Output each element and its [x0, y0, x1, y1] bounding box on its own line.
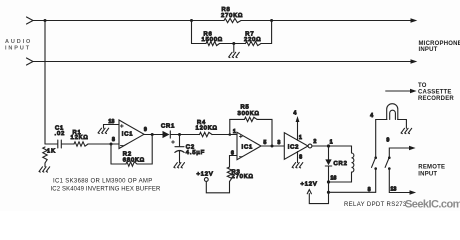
- svg-text:13: 13: [109, 119, 115, 125]
- watermark SeekIC.com: [405, 199, 460, 211]
- pin label 13: [109, 119, 115, 125]
- svg-text:13: 13: [391, 187, 397, 193]
- pin label 13 (relay contact): [391, 187, 397, 193]
- wire: feedback bottom left: [111, 163, 126, 165]
- op-amp U1b IC1 second section: [237, 132, 261, 159]
- pin label 4: [294, 111, 297, 117]
- svg-text:IC2: IC2: [288, 145, 300, 151]
- svg-text:CR1: CR1: [161, 124, 175, 130]
- label R1: [73, 130, 82, 136]
- resistor R1 (1K to ground) label 1K: [43, 147, 47, 163]
- pin label 9 (relay contact): [387, 138, 390, 144]
- label R6: [204, 32, 213, 38]
- svg-text:1: 1: [330, 140, 333, 146]
- svg-text:270KΩ: 270KΩ: [221, 13, 243, 19]
- pin label 1: [233, 129, 236, 135]
- label CR2: [334, 161, 348, 167]
- value 270KΩ (R3): [232, 174, 254, 180]
- label REMOTE INPUT: [418, 165, 445, 178]
- pin label 9: [144, 127, 147, 133]
- wire: second microphone line: [33, 61, 412, 63]
- wire: R5 top right segment + right vertical down to output: [257, 119, 272, 146]
- resistor R7: [246, 41, 262, 45]
- node: +12V rail junction: [327, 191, 330, 194]
- label TO CASSETTE RECORDER: [418, 83, 454, 102]
- wire: R5 top left segment: [230, 118, 245, 120]
- minus mark U1a: [120, 145, 123, 147]
- node: relay coil top (pin 1): [327, 144, 330, 147]
- switch S1b contacts and arm: [385, 156, 391, 170]
- svg-text:IC1 SK3688 OR LM3900 OP AMP: IC1 SK3688 OR LM3900 OP AMP: [53, 179, 153, 185]
- wire: feedback down from pin 8: [110, 144, 112, 164]
- value 270KΩ (R8): [221, 13, 243, 19]
- label R5: [241, 105, 250, 111]
- wire: node to C1: [45, 143, 57, 145]
- pin label 3: [278, 140, 281, 146]
- svg-text:3: 3: [278, 140, 281, 146]
- switch S1a pole wire: [375, 120, 377, 157]
- svg-text:SeekIC.com: SeekIC.com: [405, 199, 460, 211]
- svg-text:8: 8: [368, 187, 371, 193]
- pin 6 wire: [230, 155, 238, 157]
- node: output / feedback junction: [151, 133, 154, 136]
- svg-text:IC1: IC1: [242, 145, 254, 151]
- label R8: [222, 7, 231, 13]
- lamp DS1: [387, 104, 398, 120]
- capacitor C2: [175, 135, 184, 153]
- label +12V (relay): [301, 181, 318, 187]
- svg-text:.02: .02: [55, 131, 66, 137]
- pin label 16: [331, 176, 337, 182]
- pin 8 wire down to ground: [297, 152, 299, 163]
- ground: pin 13: [98, 125, 109, 134]
- wire: R4 to op-amp2 pin 1: [212, 134, 237, 136]
- wire: pin 9 corner to remote arrow top: [389, 148, 409, 157]
- ground: IC2 pin 8: [292, 163, 303, 168]
- svg-text:12KΩ: 12KΩ: [71, 135, 89, 141]
- pin label 2 (IC2 output): [314, 139, 317, 145]
- node: output junction with R5: [271, 145, 274, 148]
- value 680KΩ (R2): [123, 158, 145, 164]
- ground: attenuator tap: [229, 44, 240, 58]
- label CR1: [161, 124, 175, 130]
- wire: branch middle segment: [220, 43, 246, 45]
- label R3: [232, 170, 241, 176]
- pin label 1 (IC2 top): [299, 135, 302, 141]
- plus mark U1a: [120, 125, 123, 128]
- svg-text:1K: 1K: [47, 149, 56, 155]
- terminal: +12V circle (op-amp bias): [204, 178, 208, 182]
- label +12V (bias): [197, 172, 214, 178]
- label MICROPHONE INPUT: [419, 41, 460, 53]
- node: relay coil bottom (pin 16): [327, 180, 330, 183]
- +12V supply arrow: [307, 190, 311, 194]
- value 300KΩ (R5): [238, 111, 260, 117]
- node: feedback tap at pin 8: [110, 143, 113, 146]
- wire: feedback bottom right + up to output: [137, 135, 152, 165]
- pin label 4 (relay contact): [370, 113, 373, 119]
- node: R5 tap on pin1 wire: [229, 133, 232, 136]
- label AUDIO INPUT: [5, 39, 32, 52]
- pin 4 supply arrow up: [296, 116, 300, 140]
- input arrow (audio input bottom): [27, 58, 34, 65]
- resistor R1: [74, 142, 88, 146]
- svg-text:680KΩ: 680KΩ: [123, 158, 145, 164]
- ground: below 1K: [39, 167, 50, 172]
- wire: +12V rail to switch pin 8: [329, 191, 376, 193]
- switch S1b bottom wire to pin 13 corner: [389, 169, 410, 193]
- value 1500Ω (R6): [202, 37, 223, 43]
- svg-text:CASSETTE: CASSETTE: [418, 90, 452, 96]
- value 220Ω (R7): [244, 37, 261, 43]
- wire: lamp left lead to switch pole 4: [376, 119, 387, 121]
- svg-text:5: 5: [264, 140, 267, 146]
- value 12KΩ (R1): [71, 135, 89, 141]
- wire: C1 to R1: [62, 143, 74, 145]
- label C1: [55, 126, 64, 132]
- resistor R2: [126, 162, 137, 166]
- resistor R6: [206, 41, 220, 45]
- inverter U2 IC2: [284, 133, 308, 160]
- svg-text:AUDIO: AUDIO: [5, 39, 32, 45]
- resistor R8: [224, 18, 241, 22]
- arrowhead: remote input top: [409, 146, 416, 150]
- svg-text:+12V: +12V: [197, 172, 214, 178]
- wire: top microphone line from input arrow to R8 left node: [33, 20, 224, 22]
- wire: branch horizontal right part: [261, 43, 272, 45]
- input arrow (audio input top): [27, 17, 34, 24]
- label R4: [197, 120, 206, 126]
- svg-text:RECORDER: RECORDER: [418, 96, 454, 102]
- node A: junction top wire / vertical feed: [44, 19, 47, 22]
- value 120KΩ (R4): [196, 126, 218, 132]
- wire: rail down and left to +12V arrow: [309, 192, 328, 203]
- pin label 6: [231, 151, 234, 157]
- diode CR2 (flyback): [325, 146, 331, 182]
- switch S1a bottom wire to pin 8: [375, 169, 377, 192]
- plus mark C2: [172, 141, 175, 144]
- wire: op-amp1 output: [144, 134, 163, 136]
- wire: top line from R8 to right arrowhead: [241, 20, 412, 22]
- ground: lamp: [401, 128, 412, 133]
- svg-text:9: 9: [387, 138, 390, 144]
- wire: C2 to ground: [179, 151, 181, 163]
- switch S1a contacts and arm: [372, 156, 378, 170]
- wire: R1 to op-amp pin 8: [88, 143, 119, 145]
- svg-text:120KΩ: 120KΩ: [196, 126, 218, 132]
- svg-text:+12V: +12V: [301, 181, 318, 187]
- svg-text:RELAY DPDT RS273: RELAY DPDT RS273: [344, 202, 407, 208]
- svg-text:220Ω: 220Ω: [244, 37, 261, 43]
- svg-text:270KΩ: 270KΩ: [232, 174, 254, 180]
- value .02 (C1): [55, 131, 66, 137]
- node: right junction of attenuator branch: [270, 19, 273, 22]
- wire: CR1 cathode to C2 node: [170, 134, 199, 136]
- pin label 8 (IC2 bottom): [299, 155, 302, 161]
- svg-text:4.5µF: 4.5µF: [186, 150, 205, 156]
- minus mark U1b: [239, 156, 242, 158]
- diode CR1: [163, 131, 171, 138]
- wire: R3 bottom to +12V terminal: [206, 181, 229, 192]
- wire: vertical feed from node A down to C1 node: [44, 21, 46, 145]
- plus mark U1b: [239, 135, 242, 138]
- svg-text:R5: R5: [241, 105, 250, 111]
- value 4.5µF (C2): [186, 150, 205, 156]
- note: IC types: [51, 179, 162, 193]
- svg-text:8: 8: [112, 137, 115, 143]
- svg-text:REMOTE: REMOTE: [418, 165, 445, 171]
- wire: branch right vertical: [271, 21, 273, 44]
- svg-text:2: 2: [314, 139, 317, 145]
- svg-text:6: 6: [231, 151, 234, 157]
- svg-text:1500Ω: 1500Ω: [202, 37, 223, 43]
- svg-text:4: 4: [294, 111, 297, 117]
- arrowhead: remote input bottom: [410, 190, 417, 194]
- wire: coil bottom down to +12V rail node: [328, 182, 330, 192]
- wire: branch horizontal left part: [192, 43, 207, 45]
- note: relay type: [344, 202, 407, 208]
- wire: op-amp2 output to IC2 input: [261, 145, 284, 147]
- node: left junction of attenuator branch: [190, 19, 193, 22]
- node: attenuator ground tap: [232, 42, 235, 45]
- pin label 5: [264, 140, 267, 146]
- wire: R5 left vertical: [229, 119, 231, 134]
- label 1K: [47, 149, 56, 155]
- wire: lamp right lead to ground: [398, 120, 407, 129]
- pin label 1 (relay): [330, 140, 333, 146]
- pin label 8 (relay contact): [368, 187, 371, 193]
- pin label 8: [112, 137, 115, 143]
- annotation arrow: to cassette recorder: [386, 89, 417, 93]
- op-amp U1a IC1 first section: [119, 120, 144, 149]
- arrowhead: microphone input top: [411, 18, 418, 23]
- resistor R3: [227, 167, 231, 182]
- svg-text:9: 9: [144, 127, 147, 133]
- svg-text:16: 16: [331, 176, 337, 182]
- svg-text:TO: TO: [418, 83, 427, 89]
- label R2: [123, 152, 132, 158]
- resistor R4: [200, 132, 213, 136]
- label C2: [186, 145, 195, 151]
- svg-text:INPUT: INPUT: [419, 47, 438, 53]
- svg-text:IC2 SK4049 INVERTING HEX BUFFE: IC2 SK4049 INVERTING HEX BUFFER: [51, 187, 162, 193]
- arrowhead: microphone input bottom: [411, 59, 418, 64]
- svg-text:4: 4: [370, 113, 373, 119]
- svg-text:IC1: IC1: [122, 132, 134, 138]
- pin 13 wire (non-inverting input to ground): [104, 124, 120, 126]
- svg-text:INPUT: INPUT: [418, 172, 437, 178]
- svg-text:300KΩ: 300KΩ: [238, 111, 260, 117]
- label R7: [245, 32, 254, 38]
- svg-text:8: 8: [299, 155, 302, 161]
- capacitor C1: [58, 140, 62, 148]
- svg-text:1: 1: [299, 135, 302, 141]
- svg-text:CR2: CR2: [334, 161, 348, 167]
- resistor R5: [245, 117, 258, 121]
- wire: 1K bottom stub: [44, 163, 46, 167]
- bubble on IC2 output: [308, 144, 312, 148]
- node: detector node (C2 top): [178, 133, 181, 136]
- svg-text:INPUT: INPUT: [5, 46, 31, 52]
- svg-text:1: 1: [233, 129, 236, 135]
- ground: C2: [174, 163, 185, 168]
- wire: pin 6 down to R3: [229, 156, 231, 168]
- relay coil K1: [329, 146, 354, 182]
- wire: IC2 output to relay node: [312, 145, 329, 147]
- wire: branch left vertical: [191, 21, 193, 44]
